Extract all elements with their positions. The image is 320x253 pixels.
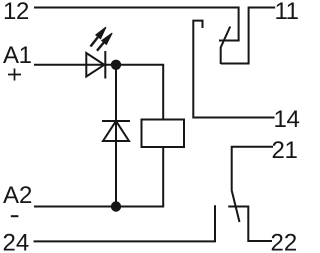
freewheel diode triangle: [103, 121, 129, 141]
freewheel diode cathode bar: [102, 120, 130, 122]
svg-text:11: 11: [275, 0, 299, 25]
polarity plus: [8, 69, 21, 81]
wire 21 (common of bottom contact): [232, 147, 273, 191]
wire 14 with NO contact hook: [193, 21, 274, 118]
wire 12 to NC contact: [34, 8, 239, 41]
svg-text:A2: A2: [3, 182, 32, 209]
junction dot A2/diode: [111, 201, 121, 211]
polarity minus: [11, 215, 19, 217]
LED light arrow 1: [91, 27, 107, 47]
NC contact tick (terminal 12): [219, 40, 240, 42]
junction dot A1/LED: [111, 60, 121, 70]
svg-text:A1: A1: [3, 42, 32, 69]
LED light arrow 2: [97, 33, 112, 51]
wire A1 to coil top: [34, 65, 163, 120]
LED D1 (triangle): [86, 53, 104, 77]
relay coil K1: [142, 120, 185, 148]
svg-text:24: 24: [3, 230, 30, 253]
relay blade top contact (11-12 closed): [221, 27, 231, 65]
wire 11 (common of top contact): [221, 8, 276, 64]
LED D1 cathode bar: [104, 51, 106, 79]
wire 24 with NO contact stub: [34, 205, 215, 241]
svg-text:21: 21: [272, 137, 298, 164]
svg-text:14: 14: [274, 106, 300, 133]
svg-text:22: 22: [271, 230, 298, 253]
wire 22 with NC tick: [228, 207, 272, 242]
wire LED junction down through diode to A2: [115, 65, 117, 207]
wire coil bottom to A2: [34, 147, 163, 207]
svg-text:12: 12: [3, 0, 29, 25]
relay blade bottom contact (21-22 closed): [232, 191, 240, 223]
